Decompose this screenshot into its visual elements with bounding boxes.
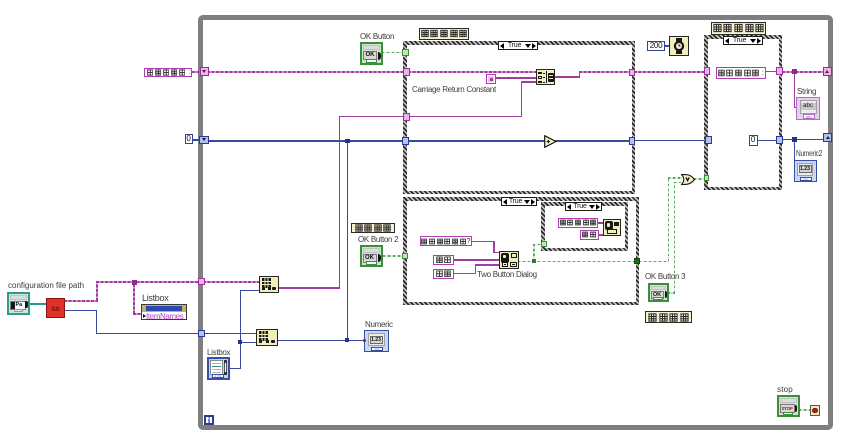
one button dialog node (603, 219, 621, 237)
wire P10 branch down to String indicator (794, 71, 796, 108)
wire B12 200 to wait (664, 45, 670, 47)
wire G6 OR out to C4 selector tunnel (694, 178, 704, 180)
text label Listbox (property) (142, 294, 168, 302)
wire P5 tunnel2 to concat in3 (408, 116, 522, 118)
string constant 購物車清單 : (outside loop) (144, 68, 192, 78)
case structure C2 (two button dialog) (403, 197, 639, 305)
concatenate strings node (536, 69, 555, 85)
coercion dot Numeric (363, 339, 366, 342)
while loop (198, 15, 833, 430)
text label Carriage Return Constant (412, 86, 496, 94)
string constant 取消 (433, 269, 454, 279)
text label OK Button 3 (645, 273, 685, 281)
label 確認或取消 (711, 22, 766, 35)
text label Numeric (365, 321, 393, 329)
case C4 selector (723, 36, 763, 45)
loop condition terminal (810, 405, 820, 416)
text label configuration file path (8, 282, 84, 290)
wire P12 subVI to property node and loop tunnel (string array) (64, 300, 98, 302)
property node Listbox ItemNames (141, 304, 187, 320)
text label Numeric2 (796, 150, 822, 158)
junction pink near String (792, 69, 797, 74)
wire P1 string const to left shift register (192, 71, 201, 73)
C4 blue tunnel out (776, 136, 783, 144)
wire B5 0 const to C4 right tunnel (756, 140, 777, 142)
wire B6 C4 out to right shift register and Numeric2 (782, 139, 824, 141)
wire P7 C1 out to C4 in (634, 71, 705, 73)
case structure C1 放入購物車 (403, 41, 635, 194)
C4 pink tunnel out (776, 67, 783, 75)
C1 selector tunnel (402, 49, 409, 56)
wire P8 const to C4 right tunnel (765, 71, 777, 73)
numeric constant 0 (in C4) (749, 135, 758, 146)
text label String (797, 88, 816, 96)
wire B2 shift register to C1 blue tunnel (208, 140, 404, 142)
red subVI (read config) (46, 298, 65, 318)
right shift register pink (823, 67, 832, 76)
two button dialog node (499, 251, 519, 269)
left shift register pink (200, 67, 209, 76)
C1 blue tunnel in (402, 137, 409, 145)
C1 pink tunnel in2 (403, 113, 410, 121)
listbox terminal (207, 357, 230, 381)
junction blue on B8 (345, 338, 350, 343)
string constant 購物車清單 : (in C4) (716, 67, 766, 79)
junction pink at property node branch (132, 280, 137, 285)
wire B7 vertical branch from y141 to y340 (347, 141, 349, 340)
Numeric indicator (364, 330, 389, 352)
wire B1 0 const to blue shift register (192, 139, 200, 141)
wire B11 listbox to index inputs (229, 368, 241, 370)
wire P12b inside loop to index array1 (203, 281, 260, 283)
wire G2 OK button2 to C2 selector tunnel (383, 255, 402, 257)
text label stop (777, 386, 793, 394)
case C3 selector (565, 202, 602, 211)
wire G1 OK button to C1 selector tunnel (382, 52, 402, 54)
text label Two Button Dialog (477, 271, 537, 279)
junction blue on B2 (345, 139, 350, 144)
C4 selector tunnel (704, 175, 710, 181)
wire B3 inside C1 through increment (408, 140, 545, 142)
C4 pink tunnel in (704, 67, 711, 75)
case structure C4 確認或取消 (704, 35, 782, 190)
wire P4 carriage return const to concat in2 (495, 77, 537, 79)
wire P3 C1 tunnel to concat in1 (408, 71, 537, 73)
wire P6 concat out to C1 right tunnel (554, 76, 580, 78)
carriage return constant icon (486, 74, 496, 84)
string constant 確認 (433, 255, 454, 265)
wire P14 dialog inputs (471, 241, 495, 243)
OK Button 3 terminal (648, 283, 670, 303)
text label OK Button (360, 33, 394, 41)
wire G4 C2 tunnel out to OR input1 (639, 261, 669, 263)
junction blue at listbox branch (238, 340, 242, 344)
loop tunnel pink (string array in) (198, 278, 206, 286)
C1 blue tunnel out (629, 137, 636, 145)
wire B8 index array2 out to Numeric (277, 340, 365, 342)
wait ms node (669, 36, 689, 56)
index array node 1 (259, 276, 279, 293)
increment node (544, 135, 557, 148)
loop tunnel blue (numeric array in) (198, 330, 206, 338)
wire B9 loop tunnel to index array2 (203, 333, 257, 335)
label 取消按鈕 (645, 311, 692, 323)
case C2 selector (501, 197, 537, 206)
string constant 訂單已送出 (558, 218, 598, 229)
case C1 selector (498, 41, 538, 50)
text label OK Button 2 (358, 236, 398, 244)
wire G5 OK button3 to OR input2 (668, 292, 675, 294)
wire P13 nested case constants to one button dialog (597, 222, 604, 224)
junction blue near Numeric2 (792, 137, 797, 142)
junction green (532, 259, 536, 263)
text label Listbox (terminal) (207, 349, 230, 357)
wire P11 index array1 out up to C1 tunnel2 (278, 287, 340, 289)
OR gate (681, 174, 695, 185)
Numeric2 indicator (794, 160, 817, 182)
string constant 確認 (nested) (580, 230, 599, 240)
OK Button terminal (360, 42, 383, 65)
label 放入購物車 (419, 28, 469, 40)
C2 green tunnel out dark (634, 258, 640, 264)
index array node 2 (256, 329, 278, 346)
label 確認按鈕 (351, 223, 395, 233)
C1 pink tunnel in1 (403, 68, 410, 76)
wire B10 subVI blue out to loop tunnel (64, 310, 97, 312)
path control terminal (7, 292, 30, 315)
String indicator (796, 97, 820, 120)
numeric constant 200 (647, 41, 665, 52)
right shift register blue (823, 133, 832, 142)
wire G3 two button dialog out (518, 261, 635, 263)
wire G7 stop button to loop condition (799, 409, 810, 411)
wire P2 shift register to C1 tunnel (207, 71, 405, 73)
C1 pink tunnel out (629, 69, 636, 77)
string constant 確認是否購買? (420, 236, 472, 246)
case structure C3 nested 訂單已送出 (541, 202, 628, 251)
wire T1 path control to subVI (29, 303, 46, 305)
C4 blue tunnel in (705, 136, 712, 144)
OK Button 2 terminal (360, 245, 383, 268)
numeric constant 0 (left) (185, 134, 193, 145)
C3 selector tunnel (541, 241, 547, 247)
stop button terminal (777, 395, 801, 417)
C2 selector tunnel (402, 253, 409, 260)
wire P9 C4 out to right shift register (782, 71, 824, 73)
wire B4 C1 out to C4 blue tunnel (634, 140, 706, 142)
left shift register blue (199, 136, 209, 145)
iteration terminal i (204, 415, 214, 425)
